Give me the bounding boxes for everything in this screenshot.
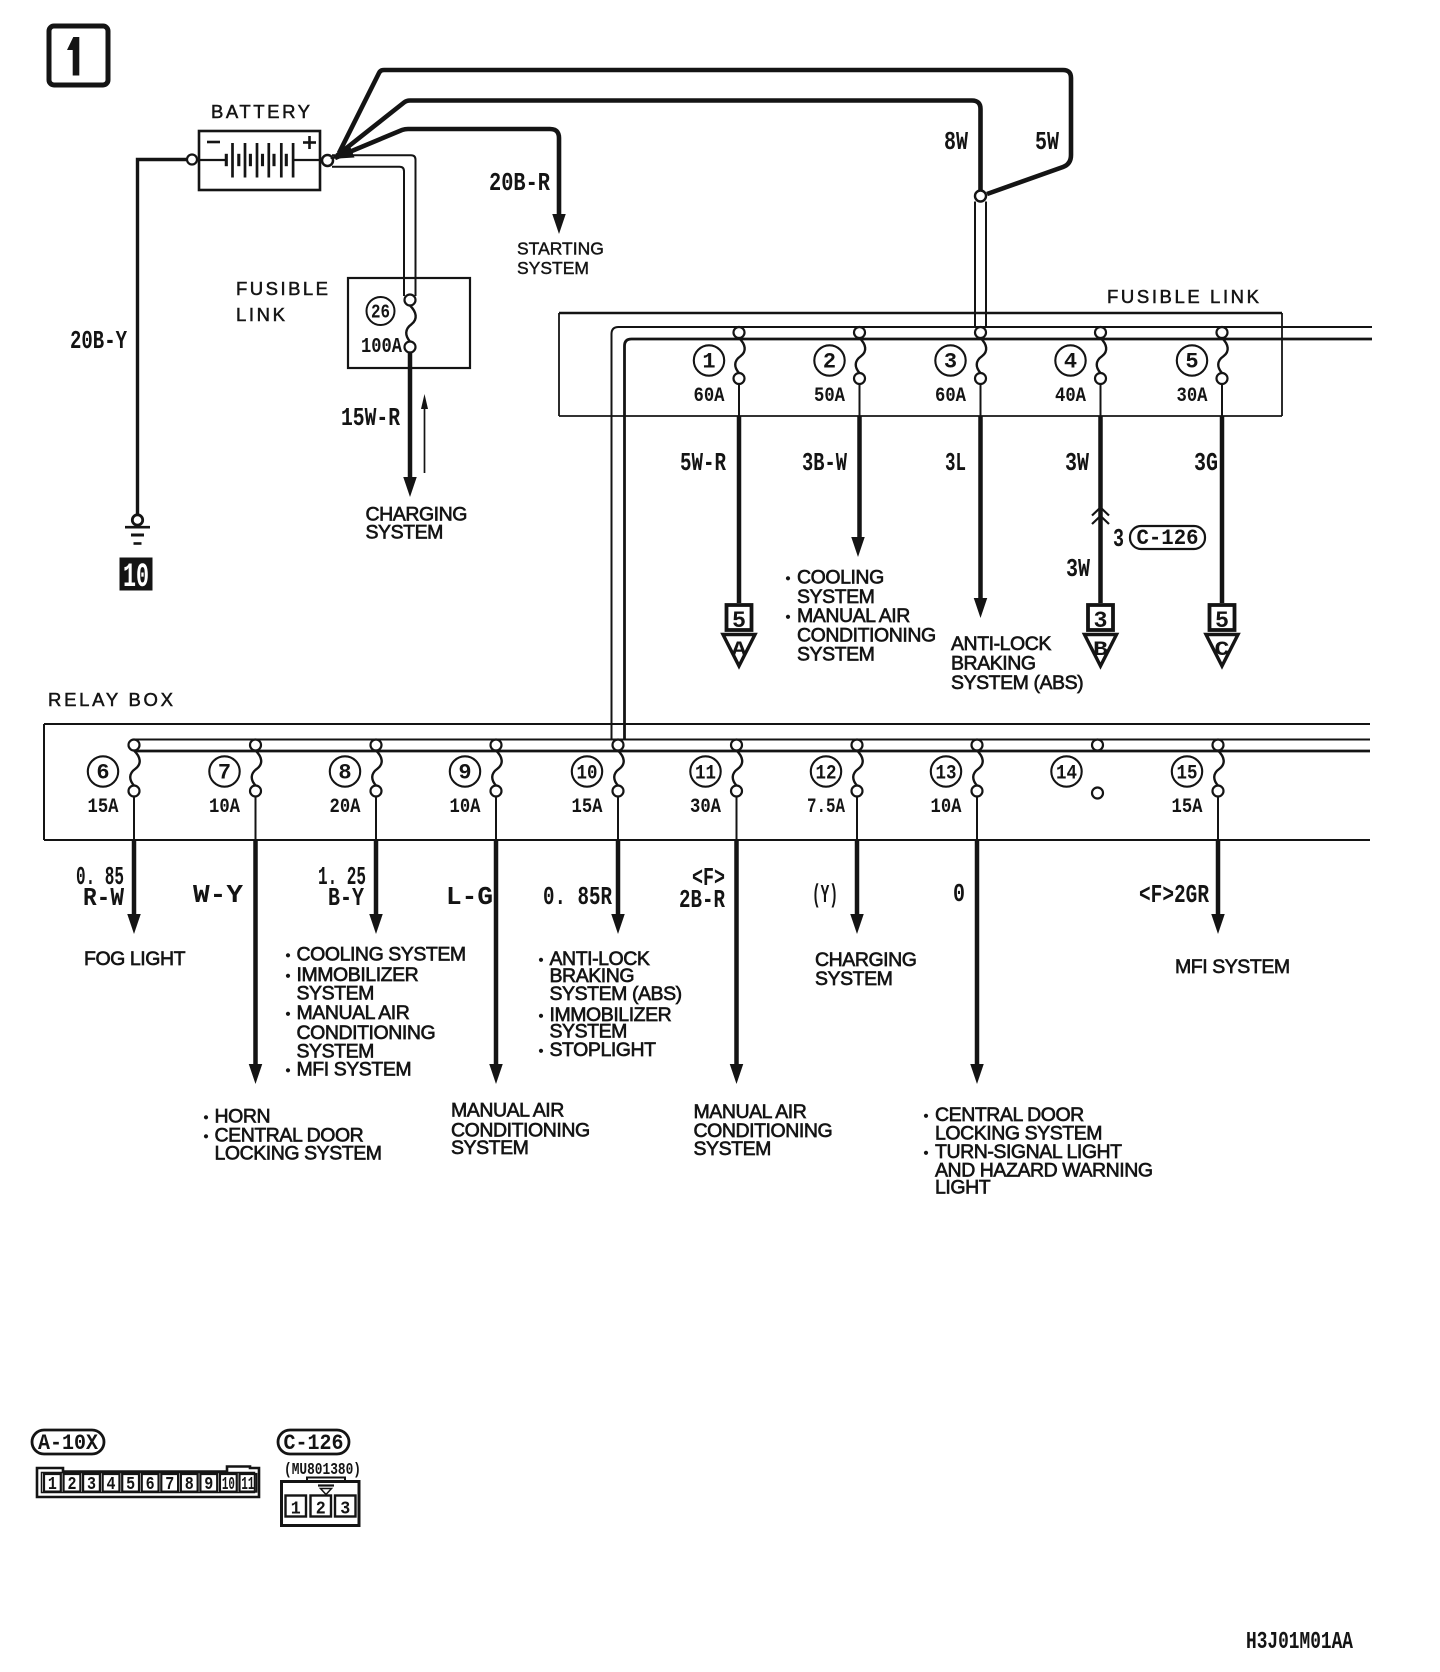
wire 3B-W to cooling system	[857, 416, 862, 538]
svg-text:5: 5	[732, 608, 746, 634]
svg-text:26: 26	[371, 302, 390, 324]
svg-text:RELAY BOX: RELAY BOX	[48, 689, 174, 710]
wire 0.85R to ABS etc	[616, 840, 621, 916]
relay box outline	[44, 723, 1370, 725]
svg-text:10: 10	[123, 559, 149, 597]
svg-text:3: 3	[340, 1500, 350, 1520]
svg-text:7.5A: 7.5A	[807, 796, 846, 819]
svg-text:3L: 3L	[945, 448, 966, 478]
arrowhead manual aircon	[489, 1064, 503, 1084]
relay box fuse 6 number circle	[88, 756, 118, 786]
svg-text:11: 11	[695, 763, 716, 786]
relay box fuse 13 number circle	[931, 756, 961, 786]
battery positive terminal node	[322, 155, 333, 166]
inter-page pointer box 5	[1210, 605, 1235, 630]
svg-text:10: 10	[222, 1475, 235, 1495]
connector C-126 body	[282, 1482, 360, 1526]
connector C-126 in-line symbol	[1092, 508, 1109, 516]
wire L-G to manual aircon	[494, 840, 499, 1066]
fusible link 4	[1095, 327, 1106, 338]
svg-text:6: 6	[96, 761, 109, 786]
wire relay fuse 12 lower	[856, 797, 858, 841]
relay box fuse 14 top node	[1092, 740, 1103, 751]
svg-text:7: 7	[218, 761, 231, 786]
relay box fuse 10 number circle	[572, 756, 602, 786]
svg-text:5: 5	[126, 1475, 135, 1495]
arrowhead cooling system	[851, 537, 865, 557]
connector A-10X pin 10	[220, 1474, 237, 1492]
wire to starting system	[335, 129, 559, 216]
svg-text:3: 3	[1094, 608, 1108, 634]
svg-text:H3J01M01AA: H3J01M01AA	[1246, 1629, 1353, 1656]
wire (Y) to charging system	[855, 840, 860, 916]
svg-text:B-Y: B-Y	[328, 883, 364, 913]
fusible link box (fuse 26)	[348, 278, 470, 368]
svg-text:W-Y: W-Y	[193, 880, 243, 910]
svg-text:10: 10	[577, 763, 598, 786]
svg-text:C-126: C-126	[284, 1431, 344, 1456]
svg-text:R-W: R-W	[83, 883, 124, 913]
fusible link 4 number circle	[1055, 345, 1085, 375]
svg-text:3W: 3W	[1066, 554, 1090, 584]
fuse 26	[405, 295, 416, 306]
svg-text:1: 1	[702, 350, 715, 375]
svg-text:13: 13	[936, 763, 957, 786]
wire fusible link 3 lower	[980, 384, 982, 416]
svg-text:8: 8	[185, 1475, 194, 1495]
svg-text:8: 8	[338, 761, 351, 786]
connector C-126 keying mark	[318, 1484, 334, 1486]
wire 3W upper	[1098, 416, 1103, 603]
wire 2GR to MFI system	[1216, 840, 1221, 916]
svg-text:0: 0	[953, 879, 965, 909]
battery negative terminal node	[187, 155, 197, 165]
svg-text:30A: 30A	[1177, 385, 1209, 408]
arrowhead central door list	[970, 1064, 984, 1084]
svg-text:LOCKING SYSTEM: LOCKING SYSTEM	[215, 1143, 382, 1165]
svg-text:11: 11	[241, 1475, 254, 1495]
connector A-10X callout	[32, 1430, 104, 1454]
svg-text:5: 5	[1215, 608, 1229, 634]
svg-text:40A: 40A	[1055, 385, 1087, 408]
connector A-10X pin 1	[44, 1474, 61, 1492]
svg-text:LINK: LINK	[236, 304, 286, 325]
svg-text:8W: 8W	[944, 127, 968, 157]
svg-text:60A: 60A	[935, 385, 967, 408]
arrowhead cooling list	[369, 914, 383, 934]
fusible link 3 number circle	[935, 345, 965, 375]
wire relay fuse 10 lower	[617, 797, 619, 841]
relay box fuse 12 number circle	[811, 756, 841, 786]
connector A-10X pin 4	[103, 1474, 120, 1492]
wire 3L to ABS	[978, 416, 983, 600]
connector A-10X pin 5	[122, 1474, 139, 1492]
relay box fuse 7	[252, 751, 261, 786]
relay box fuse 13	[973, 751, 982, 786]
junction node above fusible link	[975, 191, 986, 202]
svg-text:15A: 15A	[1172, 796, 1204, 819]
connector A-10X pin 3	[83, 1474, 100, 1492]
arrowhead manual aircon 2	[730, 1064, 744, 1084]
svg-text:6: 6	[146, 1475, 155, 1495]
page number 1 frame	[49, 26, 108, 85]
connector C-126 pin 2	[311, 1496, 332, 1517]
relay box fuse 13 top node	[972, 740, 983, 751]
wire fusible link 4 lower	[1100, 384, 1102, 416]
arrowhead horn	[249, 1064, 263, 1084]
svg-text:3B-W: 3B-W	[802, 448, 847, 478]
svg-text:15W-R: 15W-R	[341, 403, 400, 433]
wire fuse 26 to charging system	[408, 353, 413, 480]
relay box fuse 10	[614, 751, 623, 786]
svg-text:10A: 10A	[209, 796, 241, 819]
svg-text:7: 7	[165, 1475, 174, 1495]
svg-text:MANUAL AIR: MANUAL AIR	[451, 1100, 564, 1122]
wire 5W-R to pointer A	[737, 416, 742, 603]
relay box fuse 7 top node	[250, 740, 261, 751]
svg-text:LIGHT: LIGHT	[935, 1177, 991, 1199]
relay box fuse 11	[733, 751, 742, 786]
svg-text:C: C	[1215, 639, 1230, 662]
svg-text:5W-R: 5W-R	[680, 448, 726, 478]
cooling/immobilizer/aircon/MFI list	[286, 953, 290, 957]
arrowhead ABS list	[611, 914, 625, 934]
svg-text:A: A	[732, 639, 748, 662]
svg-text:STOPLIGHT: STOPLIGHT	[550, 1039, 657, 1061]
svg-text:SYSTEM: SYSTEM	[797, 644, 874, 666]
wire relay fuse 7 lower	[255, 797, 257, 841]
wire relay fuse 6 lower	[133, 797, 135, 841]
connector A-10X pin 9	[200, 1474, 217, 1492]
svg-text:FUSIBLE: FUSIBLE	[236, 278, 329, 299]
svg-text:SYSTEM: SYSTEM	[451, 1137, 528, 1159]
svg-text:L-G: L-G	[446, 882, 493, 912]
battery B1	[199, 131, 320, 190]
connector A-10X pin 6	[142, 1474, 159, 1492]
relay box fuse 11 top node	[731, 740, 742, 751]
svg-text:<F>2GR: <F>2GR	[1139, 880, 1209, 910]
svg-text:9: 9	[204, 1475, 213, 1495]
svg-text:STARTING: STARTING	[517, 239, 604, 259]
svg-text:SYSTEM: SYSTEM	[366, 522, 443, 544]
relay box fuse 12 top node	[852, 740, 863, 751]
arrowhead charging system	[403, 477, 417, 497]
svg-text:5W: 5W	[1035, 127, 1059, 157]
svg-text:9: 9	[458, 761, 471, 786]
svg-text:20B-R: 20B-R	[489, 168, 550, 198]
svg-text:2: 2	[67, 1475, 76, 1495]
svg-text:MFI SYSTEM: MFI SYSTEM	[1175, 956, 1290, 978]
relay box fuse 14 open terminal	[1092, 788, 1103, 799]
connector A-10X pin 11	[240, 1474, 257, 1492]
svg-text:5: 5	[1185, 350, 1198, 375]
svg-text:MFI SYSTEM: MFI SYSTEM	[297, 1059, 412, 1081]
relay box fuse 11 number circle	[690, 756, 720, 786]
svg-text:SYSTEM: SYSTEM	[815, 968, 892, 990]
fuse 26 number circle	[367, 297, 395, 325]
fusible link bus bar (outline style) with left drop to relay box	[612, 327, 1373, 740]
svg-text:SYSTEM (ABS): SYSTEM (ABS)	[951, 672, 1083, 694]
inter-page pointer box 5	[727, 605, 752, 630]
arrowhead MFI system	[1211, 914, 1225, 934]
inter-page pointer triangle B	[1085, 635, 1117, 667]
svg-text:FUSIBLE LINK: FUSIBLE LINK	[1107, 286, 1260, 307]
svg-text:50A: 50A	[814, 385, 846, 408]
arrowhead fog light	[127, 914, 141, 934]
svg-text:2: 2	[823, 350, 836, 375]
relay box fuse 12	[853, 751, 862, 786]
svg-text:BATTERY: BATTERY	[211, 101, 311, 122]
wire 2B-R to manual aircon	[734, 840, 739, 1066]
svg-text:3G: 3G	[1194, 448, 1218, 478]
fusible link 3	[975, 327, 986, 338]
ground reference box 10	[120, 558, 152, 590]
svg-text:0. 85R: 0. 85R	[543, 882, 612, 912]
svg-text:15: 15	[1177, 763, 1198, 786]
svg-text:15A: 15A	[88, 796, 120, 819]
svg-text:20A: 20A	[330, 796, 362, 819]
cooling / manual aircon list	[786, 576, 790, 580]
svg-text:COOLING SYSTEM: COOLING SYSTEM	[297, 944, 466, 966]
relay box fuse 9	[492, 751, 501, 786]
wire 1.25B-Y to cooling system etc	[374, 840, 379, 916]
svg-text:FOG LIGHT: FOG LIGHT	[84, 948, 186, 970]
svg-text:MANUAL AIR: MANUAL AIR	[297, 1002, 410, 1024]
wire to 5W feed (top)	[339, 70, 1071, 194]
wire junction to fusible link bus (thick, outline style)	[974, 202, 976, 327]
horn / central door list	[204, 1115, 208, 1119]
relay box fuse 9 top node	[491, 740, 502, 751]
connector C-126 pin 3	[335, 1496, 356, 1517]
svg-text:C-126: C-126	[1137, 526, 1199, 551]
relay box fuse 15 number circle	[1172, 756, 1202, 786]
fusible link box	[559, 312, 1282, 314]
wire battery negative to ground	[138, 160, 188, 516]
ABS/immobilizer/stoplight list	[539, 958, 543, 962]
svg-text:A-10X: A-10X	[38, 1431, 99, 1456]
current-direction arrow	[424, 408, 426, 473]
svg-text:B: B	[1093, 639, 1108, 662]
fusible link 5 number circle	[1177, 345, 1207, 375]
svg-text:4: 4	[107, 1475, 116, 1495]
svg-text:3W: 3W	[1065, 448, 1089, 478]
svg-text:30A: 30A	[690, 796, 722, 819]
svg-text:15A: 15A	[572, 796, 604, 819]
wire fusible link 5 lower	[1221, 384, 1223, 416]
svg-text:100A: 100A	[361, 336, 402, 359]
ground node circle	[132, 515, 142, 525]
central door/turn signal list	[924, 1114, 928, 1118]
wire relay fuse 15 lower	[1217, 797, 1219, 841]
wire relay fuse 13 lower	[976, 797, 978, 841]
arrowhead starting system	[552, 214, 566, 234]
svg-text:3: 3	[1113, 524, 1124, 554]
svg-text:14: 14	[1056, 763, 1077, 786]
wire fusible link 1 lower	[738, 384, 740, 416]
fusible link 1	[734, 327, 745, 338]
fusible link 2	[854, 327, 865, 338]
connector A-10X pin 7	[161, 1474, 178, 1492]
svg-text:2B-R: 2B-R	[679, 885, 725, 915]
inter-page pointer box 3	[1088, 605, 1113, 630]
relay box fuse 9 number circle	[450, 756, 480, 786]
svg-text:20B-Y: 20B-Y	[70, 326, 127, 356]
inter-page pointer triangle A	[723, 635, 755, 667]
fusible link 5	[1217, 327, 1228, 338]
connector A-10X body	[37, 1467, 259, 1498]
svg-text:3: 3	[87, 1475, 96, 1495]
relay box fuse 15	[1214, 751, 1223, 786]
svg-text:12: 12	[816, 763, 837, 786]
wire 0 to central door etc	[975, 840, 980, 1066]
arrowhead charging system 2	[850, 914, 864, 934]
connector C-126 callout	[278, 1430, 349, 1454]
connector C-126 pin 1	[286, 1496, 307, 1517]
svg-text:SYSTEM: SYSTEM	[517, 258, 589, 278]
wire relay fuse 8 lower	[375, 797, 377, 841]
relay box fuse 8 top node	[371, 740, 382, 751]
svg-text:4: 4	[1064, 350, 1077, 375]
relay box fuse 10 top node	[613, 740, 624, 751]
relay box fuse 8	[372, 751, 381, 786]
wire battery to fusible link 26 (thick, outline style)	[332, 155, 416, 296]
svg-text:60A: 60A	[694, 385, 726, 408]
wire relay fuse 11 lower	[736, 797, 738, 841]
svg-text:1: 1	[48, 1475, 57, 1495]
junction arrowhead at battery positive	[330, 144, 355, 160]
connector C-126 callout	[1130, 526, 1205, 549]
relay box bus bar (outline style)	[134, 739, 1370, 741]
fusible link 1 number circle	[694, 345, 724, 375]
svg-text:1: 1	[291, 1500, 301, 1520]
arrowhead ABS	[974, 598, 988, 618]
connector A-10X pin 8	[181, 1474, 198, 1492]
svg-text:SYSTEM: SYSTEM	[694, 1138, 771, 1160]
svg-text:10A: 10A	[450, 796, 482, 819]
wire relay fuse 9 lower	[495, 797, 497, 841]
relay box fuse 6	[130, 751, 139, 786]
svg-text:2: 2	[316, 1500, 326, 1520]
wire 3G to pointer C	[1220, 416, 1225, 603]
relay box fuse 7 number circle	[209, 756, 239, 786]
svg-text:(Y): (Y)	[812, 880, 838, 910]
wire fusible link 2 lower	[859, 384, 861, 416]
relay box fuse 15 top node	[1213, 740, 1224, 751]
svg-text:3: 3	[944, 350, 957, 375]
relay box fuse 6 top node	[129, 740, 140, 751]
inter-page pointer triangle C	[1206, 635, 1238, 667]
wire to 8W feed	[337, 101, 981, 191]
fusible link 2 number circle	[814, 345, 844, 375]
connector A-10X pin 2	[64, 1474, 81, 1492]
ground symbol	[125, 526, 150, 529]
relay box fuse 8 number circle	[330, 756, 360, 786]
svg-text:SYSTEM (ABS): SYSTEM (ABS)	[550, 983, 682, 1005]
svg-text:10A: 10A	[931, 796, 963, 819]
relay box fuse 14 number circle	[1051, 756, 1081, 786]
wire 0.85R-W to fog light	[132, 840, 137, 916]
wire W-Y to horn	[253, 840, 258, 1066]
